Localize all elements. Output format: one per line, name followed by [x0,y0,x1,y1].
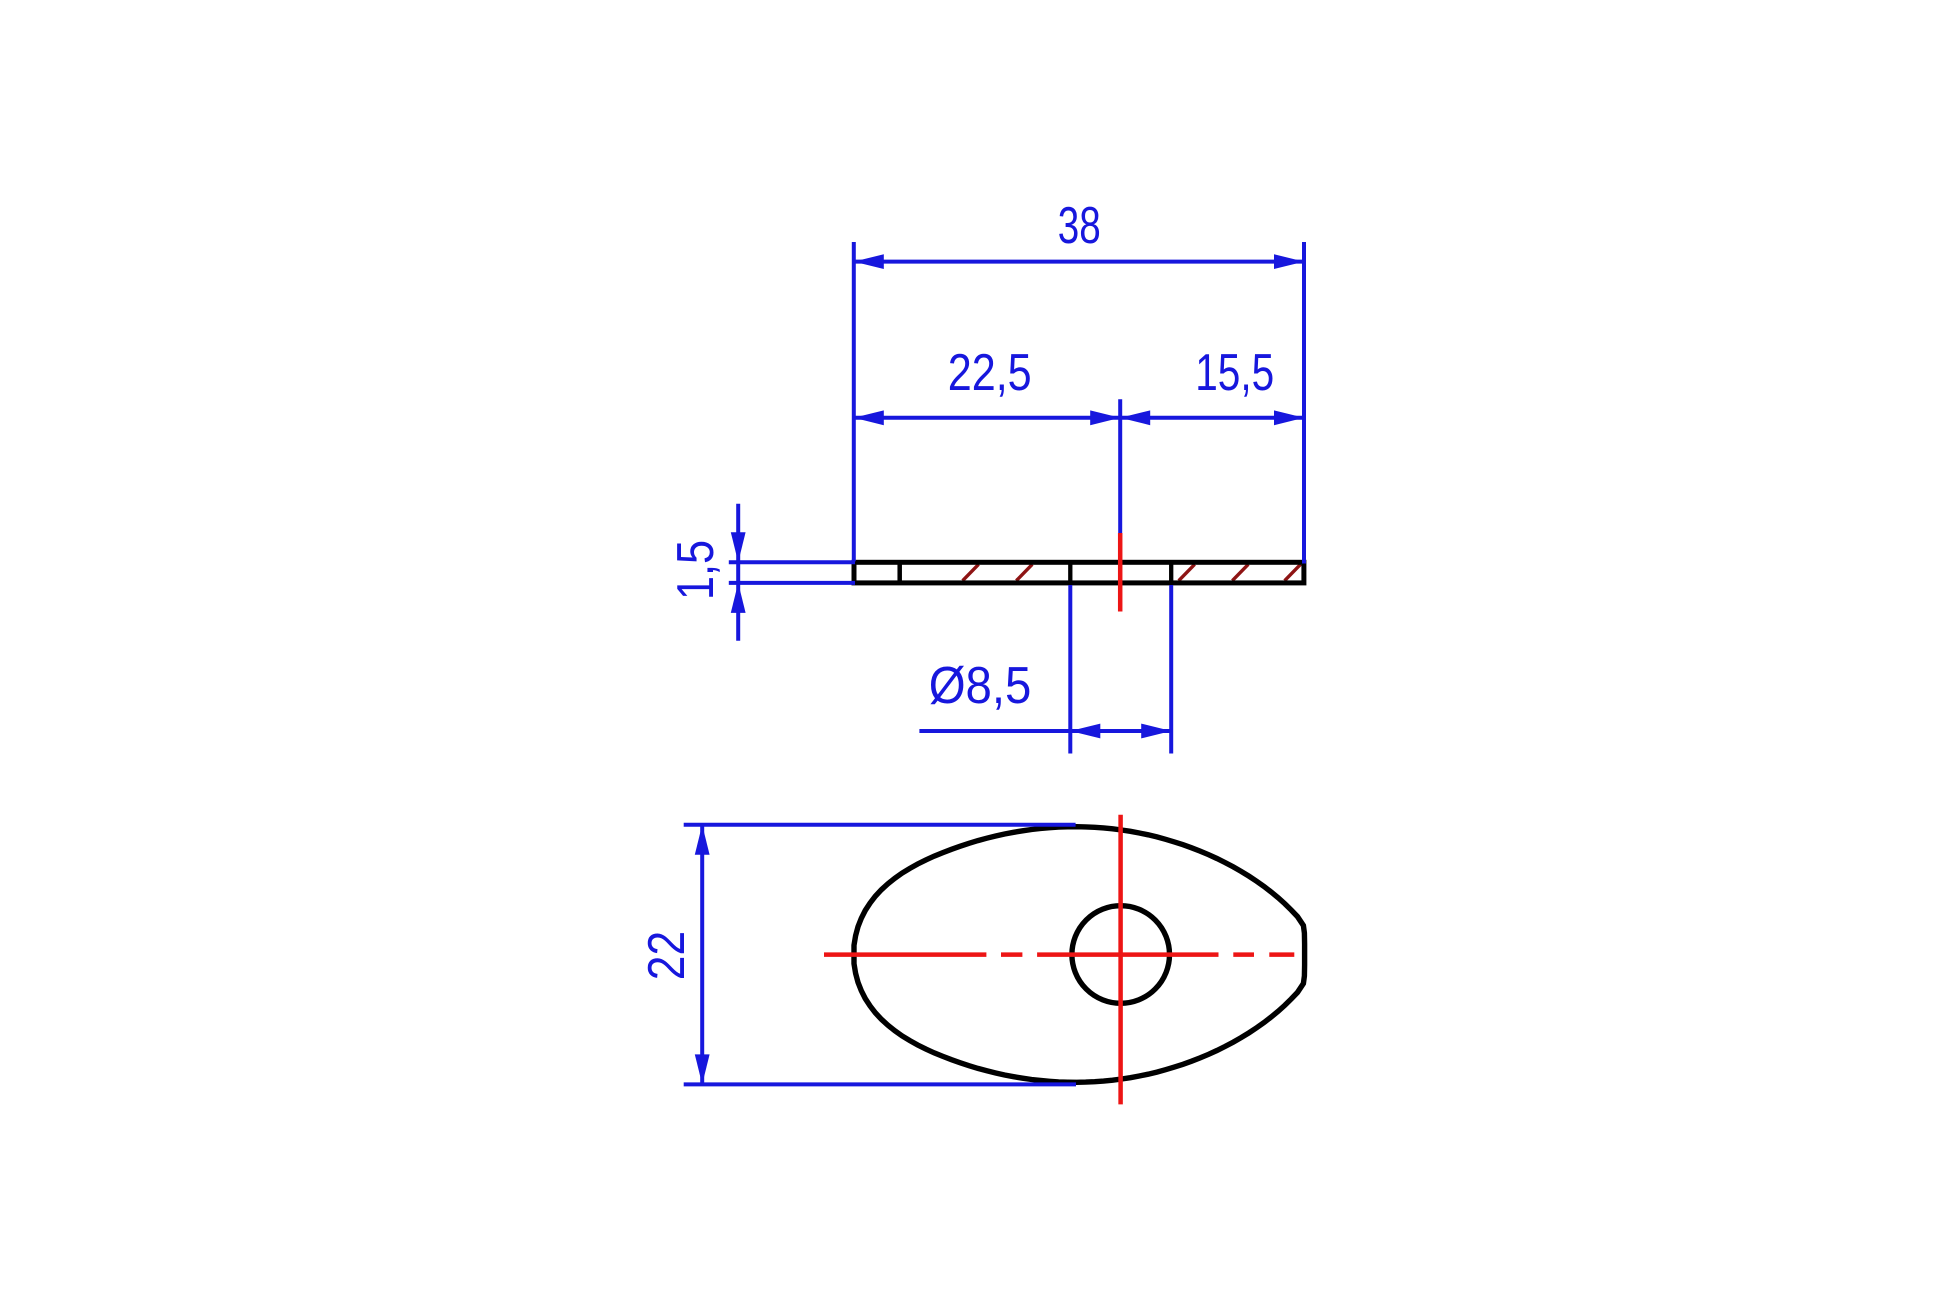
divider line hole left edge [1068,562,1072,583]
node: red centerline of hole in section view [1118,533,1123,612]
wire: 22 dimension line vertical [700,825,704,1085]
arrow right of 38 [1274,254,1304,269]
divider line hole right edge [1169,562,1173,583]
wire: middle extension line above hole (blue part) [1118,399,1122,533]
arrow up of 22 [695,825,710,855]
hatch 2 [1016,564,1032,580]
divider line left tangent [897,562,902,583]
svg-text:1,5: 1,5 [667,540,725,600]
wire: 22 top extension line [684,823,1076,827]
wire: dimension line 15,5 [1120,416,1304,420]
wire: 1,5 dimension line vertical [736,504,740,641]
svg-text:Ø8,5: Ø8,5 [929,657,1032,715]
node: red horizontal centerline in top view (dashed) [824,952,1294,957]
wire: dimension line 22,5 [854,416,1120,420]
svg-text:22: 22 [638,931,696,980]
hatch lines section left of hole [963,564,1301,580]
wire: extension line right of 38 dim [1302,242,1306,564]
svg-text:38: 38 [1058,197,1101,255]
wire: dimension line 38 [854,260,1304,264]
hole circle [1072,906,1170,1004]
arrow left of 22,5 [854,410,884,425]
arrow right of 15,5 [1274,410,1304,425]
svg-text:22,5: 22,5 [948,344,1032,402]
arrow above plate pointing down [731,532,746,562]
hatch 3 [1179,564,1195,580]
wire: 1,5 top extension line [729,560,855,564]
arrow below plate pointing up [731,583,746,613]
node: red vertical centerline in top view [1118,815,1123,1105]
svg-text:15,5: 15,5 [1195,344,1274,402]
wire: 22 bottom extension line [684,1082,1076,1086]
arrow left of 38 [854,254,884,269]
wire: extension line left of 38 dim [852,242,856,561]
arrow pointing right at hole right edge [1141,724,1171,739]
arrow right of 22,5 [1090,410,1120,425]
wire: 1,5 bottom extension line [729,581,855,585]
arrow left of 15,5 [1120,410,1150,425]
oval plate outline [854,827,1305,1083]
hatch 4 [1232,564,1248,580]
arrow down of 22 [695,1054,710,1084]
plate cross-section outline [854,562,1304,583]
wire: hole left extension below plate [1068,585,1072,754]
hatch 1 [963,564,979,580]
hatch 5 [1285,564,1301,580]
arrow pointing left at hole left edge [1070,724,1100,739]
wire: hole right extension below plate [1169,585,1173,754]
wire: dimension line for diameter 8,5 [919,729,1171,733]
